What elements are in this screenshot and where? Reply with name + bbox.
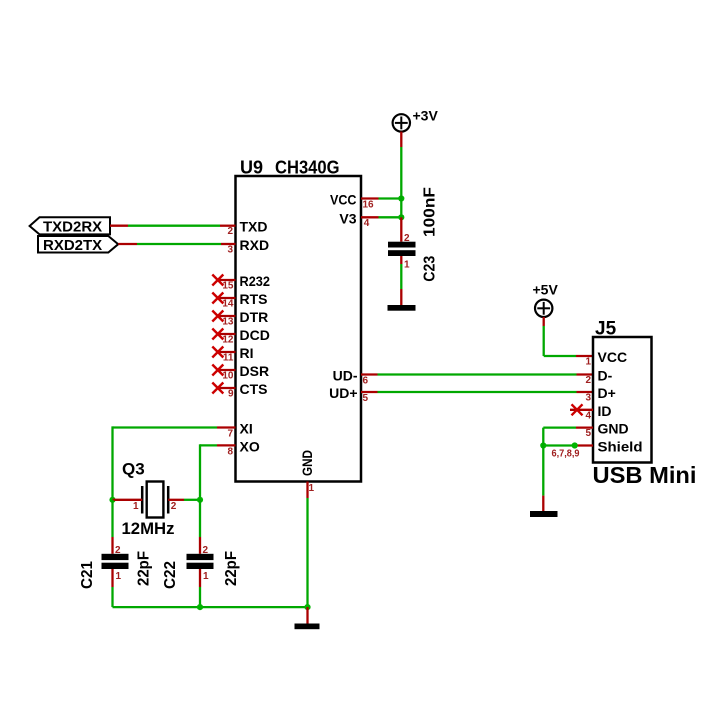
junction dot XI / C21 / crystal pin1 (109, 497, 115, 503)
svg-text:1: 1 (309, 483, 315, 494)
svg-text:TXD2RX: TXD2RX (43, 219, 102, 236)
svg-text:D-: D- (598, 368, 613, 384)
svg-text:12MHz: 12MHz (122, 519, 175, 538)
svg-text:5: 5 (585, 428, 591, 439)
ground symbol (bottom) (295, 624, 320, 630)
junction dot C22 / ground rail (197, 604, 203, 610)
junction dot VCC node (398, 195, 404, 201)
svg-text:100nF: 100nF (422, 187, 439, 237)
svg-text:GND: GND (598, 421, 629, 437)
svg-text:RXD: RXD (240, 237, 270, 253)
wire C21 to ground rail (111, 569, 113, 607)
ground symbol (below C23) (388, 305, 416, 311)
wire crystal pin 1 (113, 499, 143, 501)
wire UD+ net (pin 5 to J5 D+) (361, 391, 593, 393)
junction dot V3 node (398, 214, 404, 220)
power symbol +5V (535, 300, 552, 317)
pin 4 ID stub with no-connect X (570, 404, 593, 415)
wire +3V to VCC junctions (400, 132, 402, 218)
svg-text:6: 6 (363, 376, 369, 387)
capacitor C23 (388, 242, 416, 256)
svg-text:C23: C23 (422, 256, 439, 282)
wire VCC net (pin 16 to +3V junction) (361, 197, 401, 199)
power symbol +3V (393, 114, 410, 131)
svg-text:J5: J5 (595, 319, 617, 340)
junction dot Shield right (572, 442, 578, 448)
svg-text:13: 13 (222, 317, 234, 328)
svg-text:DSR: DSR (240, 363, 270, 379)
svg-text:12: 12 (222, 335, 234, 346)
pin 15 R232 stub with no-connect X (212, 275, 235, 286)
svg-text:11: 11 (223, 353, 234, 364)
svg-text:14: 14 (222, 299, 234, 310)
svg-text:4: 4 (364, 218, 370, 229)
svg-text:22pF: 22pF (136, 551, 153, 586)
svg-text:VCC: VCC (598, 349, 628, 365)
pin 11 RI stub with no-connect X (212, 347, 235, 358)
pin 14 RTS stub with no-connect X (212, 293, 235, 304)
wire crystal pin 2 (168, 499, 200, 501)
svg-text:1: 1 (203, 571, 209, 582)
svg-text:8: 8 (227, 447, 233, 458)
svg-text:2: 2 (585, 375, 591, 386)
svg-text:VCC: VCC (330, 192, 357, 208)
wire IC GND pin 1 down to ground rail (306, 482, 308, 608)
svg-text:7: 7 (227, 429, 233, 440)
pin 13 DTR stub with no-connect X (212, 311, 235, 322)
svg-text:10: 10 (222, 371, 234, 382)
svg-text:RTS: RTS (240, 291, 268, 307)
wire J5 GND net (543, 426, 593, 428)
wire XI junction down to C21 (111, 500, 113, 554)
svg-text:Q3: Q3 (122, 460, 145, 479)
svg-text:UD+: UD+ (329, 385, 357, 401)
wire XO junction down to C22 (199, 500, 201, 554)
wire RXD net (flag to pin 3) (118, 243, 235, 245)
svg-text:R232: R232 (240, 273, 271, 289)
wire +5V to J5 VCC (544, 317, 593, 356)
svg-text:UD-: UD- (333, 368, 358, 384)
wire V3 net (pin 4 to junction) (361, 216, 401, 218)
capacitor C21 (102, 554, 129, 569)
ground symbol (below J5) (530, 511, 558, 517)
svg-text:3: 3 (227, 244, 233, 255)
svg-text:C22: C22 (162, 561, 179, 589)
svg-text:GND: GND (299, 450, 315, 476)
wire XO net to crystal (pin 8) (200, 444, 236, 500)
svg-text:USB Mini: USB Mini (593, 462, 697, 488)
wire ground rail (bottom horizontal) (113, 606, 308, 608)
svg-text:XO: XO (240, 439, 260, 455)
svg-text:9: 9 (228, 389, 234, 400)
svg-text:5: 5 (363, 393, 369, 404)
pin 9 CTS stub with no-connect X (212, 383, 235, 394)
svg-text:CH340G: CH340G (275, 158, 340, 178)
svg-text:6,7,8,9: 6,7,8,9 (552, 449, 580, 460)
svg-text:TXD: TXD (240, 219, 268, 235)
svg-text:1: 1 (133, 501, 139, 512)
svg-text:U9: U9 (240, 158, 263, 178)
capacitor C22 (187, 554, 214, 569)
net flag RXD2TX (38, 236, 118, 253)
svg-text:1: 1 (404, 260, 410, 271)
pin 12 DCD stub with no-connect X (212, 329, 235, 340)
pin 10 DSR stub with no-connect X (212, 365, 235, 376)
svg-text:3: 3 (585, 393, 591, 404)
svg-text:2: 2 (171, 501, 177, 512)
wire C23 to ground (400, 256, 402, 305)
svg-text:XI: XI (240, 421, 253, 437)
wire J5 Shield net (543, 444, 593, 446)
crystal Q3 (142, 482, 168, 518)
svg-text:RI: RI (240, 345, 254, 361)
svg-text:22pF: 22pF (223, 551, 240, 586)
svg-text:4: 4 (585, 410, 591, 421)
wire XI net to crystal (pin 7) (113, 426, 236, 499)
svg-text:15: 15 (222, 281, 234, 292)
IC U9 body (236, 176, 362, 482)
connector J5 body (593, 337, 652, 463)
svg-text:V3: V3 (339, 210, 356, 226)
junction dot GND / ground rail (304, 604, 310, 610)
svg-text:RXD2TX: RXD2TX (43, 237, 102, 254)
svg-text:C21: C21 (79, 561, 96, 589)
wire C22 to ground rail (199, 569, 201, 607)
wire V3 junction to capacitor C23 (400, 217, 402, 241)
svg-text:16: 16 (363, 200, 375, 211)
svg-text:2: 2 (227, 226, 233, 237)
wire TXD net (flag to pin 2) (110, 225, 236, 227)
junction dot XO / C22 / crystal pin2 (197, 497, 203, 503)
svg-text:+5V: +5V (533, 282, 559, 298)
wire ground rail to ground symbol (306, 607, 308, 623)
svg-text:D+: D+ (598, 385, 616, 401)
svg-text:CTS: CTS (240, 381, 268, 397)
svg-text:DCD: DCD (240, 327, 270, 343)
wire UD- net (pin 6 to J5 D-) (361, 373, 593, 375)
svg-text:Shield: Shield (598, 438, 643, 454)
svg-text:1: 1 (116, 571, 122, 582)
wire GND/Shield down to ground (542, 428, 544, 511)
svg-text:+3V: +3V (413, 108, 439, 124)
svg-text:ID: ID (598, 403, 612, 419)
junction dot Shield left (540, 442, 546, 448)
svg-text:DTR: DTR (240, 309, 269, 325)
net flag TXD2RX (30, 217, 110, 234)
svg-text:1: 1 (585, 357, 591, 368)
